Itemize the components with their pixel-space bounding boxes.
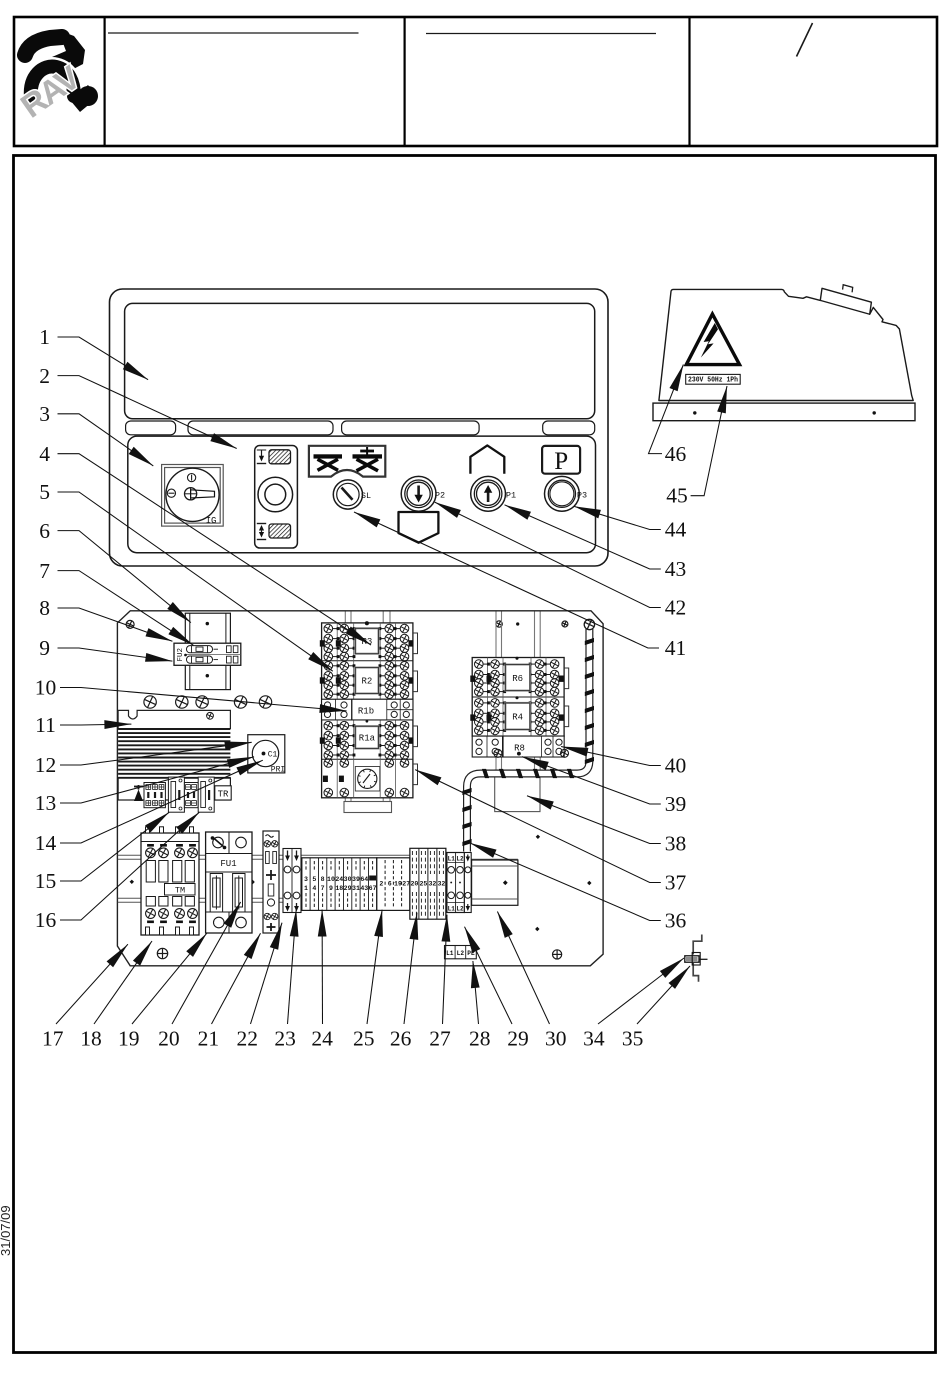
callout 7 [39,559,193,646]
callout 4 [39,442,371,645]
svg-text:3: 3 [39,402,50,426]
callout 35 [622,966,690,1051]
callout 34 [583,958,684,1051]
svg-text:40: 40 [665,754,687,778]
cover base bar [653,403,915,421]
label strip 1 [126,421,176,435]
label plate L1 L2 PE [445,946,477,959]
rail end plate [472,860,518,905]
svg-text:32: 32 [437,881,445,888]
rating plate 230V 50Hz 1Ph [686,374,741,384]
callout 3 [39,402,153,466]
clips right block [564,668,569,727]
callout 43 [505,505,687,581]
striped sheath cable [462,629,594,852]
svg-text:IG: IG [206,516,217,526]
cover body [659,285,913,401]
svg-text:31: 31 [352,885,360,892]
screw cable top [584,619,594,629]
svg-text:4: 4 [39,442,50,466]
title block frame [14,17,937,146]
svg-text:17: 17 [42,1027,64,1051]
svg-text:L1: L1 [448,906,456,913]
svg-text:18: 18 [335,885,343,892]
svg-text:38: 38 [665,832,687,856]
svg-text:L2: L2 [457,950,465,957]
relay block right [472,657,564,736]
relay R1a [320,721,414,759]
terminal strip wide [410,848,450,919]
svg-text:10: 10 [327,876,335,883]
callout 8 [39,596,172,641]
svg-text:SL: SL [361,491,371,501]
svg-text:15: 15 [35,869,57,893]
relay R1b [322,699,413,720]
svg-text:43: 43 [665,557,687,581]
capacitor C1 PRI [248,735,285,775]
title block rule cell 2 [108,32,359,34]
callout 1 [39,325,148,380]
svg-text:FU2: FU2 [177,648,185,662]
control panel enclosure [110,289,609,566]
relay support plate right [495,770,540,812]
svg-text:41: 41 [665,636,687,660]
callout 18 [80,941,152,1051]
callout 38 [527,796,686,856]
relay R3 [320,624,414,661]
relay R8 [472,736,568,757]
svg-text:25: 25 [353,1027,375,1051]
svg-text:6: 6 [388,881,392,888]
callout 25 [353,910,382,1051]
svg-text:R1b: R1b [358,706,374,716]
svg-text:44: 44 [665,518,687,542]
clips center block [413,633,418,785]
label strip 4 [543,421,595,435]
screw bottom-right [553,950,562,959]
callout 14 [35,760,263,855]
svg-text:19: 19 [118,1027,140,1051]
din rail horizontal [118,855,518,902]
fuse holder FU1 [206,832,252,933]
svg-text:8: 8 [39,596,50,620]
svg-text:23: 23 [274,1027,296,1051]
svg-text:5: 5 [39,480,50,504]
svg-text:11: 11 [35,713,56,737]
callout 37 [415,770,686,895]
screw small right-top [496,621,568,627]
svg-text:27: 27 [429,1027,451,1051]
callout 24 [311,910,333,1051]
label strip 2 [188,421,333,435]
din rail vertical right [496,612,540,771]
svg-text:39: 39 [352,876,360,883]
relay R4 [470,699,563,735]
svg-text:24: 24 [311,1027,333,1051]
svg-text:37: 37 [665,871,687,895]
callout 10 [35,676,347,711]
dot right-top [516,622,519,625]
svg-text:29: 29 [507,1027,529,1051]
screw top-left [126,620,134,628]
callout 19 [118,933,207,1050]
fuse block FU2 [174,643,241,665]
svg-text:1: 1 [304,885,308,892]
svg-text:7: 7 [321,885,325,892]
callout 28 [469,961,491,1051]
svg-text:16: 16 [35,908,57,932]
svg-text:R1a: R1a [359,734,376,744]
svg-text:42: 42 [665,596,687,620]
svg-text:8: 8 [321,876,325,883]
svg-text:36: 36 [665,909,687,933]
icon P box [542,446,580,475]
svg-text:13: 13 [35,791,57,815]
svg-text:32: 32 [428,881,436,888]
title block rule cell 3 [426,33,656,35]
terminal strip numbered [302,858,377,911]
svg-text:67: 67 [369,885,377,892]
svg-text:39: 39 [665,792,687,816]
RAV logo [14,30,98,125]
warning triangle label [686,314,739,365]
callout 12 [35,742,252,777]
callout 29 [465,927,529,1051]
svg-text:L1: L1 [448,856,456,863]
earth terminal [134,785,143,801]
svg-text:2: 2 [379,881,383,888]
svg-text:14: 14 [35,831,57,855]
callout 13 [35,757,254,816]
label strip 3 [342,421,480,435]
callout 27 [429,915,451,1051]
din rail vertical middle [344,612,392,813]
rail markers [130,835,592,932]
callout 39 [522,757,686,817]
terminal blocks under TR [144,777,214,812]
svg-text:9: 9 [39,636,50,660]
svg-text:6: 6 [39,519,50,543]
callout 16 [35,812,199,932]
button P3 [545,476,588,511]
svg-text:L2: L2 [456,856,464,863]
callout 9 [39,636,172,661]
svg-text:29: 29 [344,885,352,892]
svg-text:21: 21 [198,1027,220,1051]
icon upper pentagon [470,445,504,473]
knob SL [333,480,371,509]
date 31/07/09 [0,1205,13,1256]
terminal block arrows [283,849,301,913]
svg-text:12: 12 [35,753,57,777]
svg-text:TR: TR [218,790,229,800]
svg-text:10: 10 [35,676,57,700]
screw bottom-left [157,948,167,958]
callout 20 [158,902,240,1051]
relay R2 [320,662,414,699]
svg-text:26: 26 [390,1027,412,1051]
svg-text:P3: P3 [577,490,587,500]
callout 15 [35,812,169,893]
screw row y702 [144,696,272,708]
svg-text:64: 64 [360,876,368,883]
svg-text:5: 5 [312,876,316,883]
button P2 down [401,476,445,511]
din rail clip [685,935,708,982]
callout 2 [39,364,236,449]
callout 36 [470,843,687,933]
svg-text:46: 46 [665,442,687,466]
display window [125,303,595,418]
svg-text:C1: C1 [268,751,278,760]
svg-text:R2: R2 [361,677,372,687]
timer unit [323,759,409,797]
svg-text:19: 19 [394,881,402,888]
svg-text:PE: PE [467,950,475,957]
svg-text:35: 35 [622,1027,644,1051]
terminal strip mid [377,858,410,911]
svg-text:30: 30 [344,876,352,883]
revision slash mark [797,23,813,57]
fuse mount plate FU2 [185,613,230,689]
svg-text:27: 27 [402,881,410,888]
callout 40 [561,747,686,778]
svg-text:4: 4 [312,885,316,892]
svg-text:3: 3 [304,876,308,883]
contactor TM [141,827,199,935]
callout 21 [198,933,261,1050]
lift select control [255,446,298,549]
relay R6 [470,660,563,696]
svg-text:2: 2 [39,364,50,388]
button P1 up [471,476,516,511]
callout 42 [435,502,687,620]
svg-text:18: 18 [80,1027,102,1051]
svg-text:22: 22 [237,1027,259,1051]
svg-text:34: 34 [583,1027,605,1051]
callout 11 [35,713,131,737]
svg-text:PRI: PRI [271,766,285,775]
svg-text:31/07/09: 31/07/09 [0,1205,13,1256]
lift icons label [309,446,385,477]
terminal strip supply [263,831,279,933]
svg-text:20: 20 [410,881,418,888]
svg-text:L2: L2 [456,906,464,913]
callout 22 [237,923,282,1051]
svg-text:45: 45 [666,484,688,508]
svg-text:9: 9 [329,885,333,892]
svg-text:30: 30 [545,1027,567,1051]
callout 46 [649,365,687,466]
svg-text:R6: R6 [512,674,523,684]
callout 23 [274,910,296,1051]
main switch IG [162,465,224,527]
svg-text:P: P [554,448,568,475]
callout 45 [666,386,727,508]
svg-text:P1: P1 [506,490,516,500]
svg-text:L1: L1 [446,950,454,957]
svg-text:28: 28 [469,1027,491,1051]
relay block center [322,621,413,798]
callout 26 [390,913,417,1051]
svg-text:20: 20 [158,1027,180,1051]
svg-text:7: 7 [39,559,50,583]
mounting plate outline [117,611,603,966]
svg-text:1: 1 [39,325,50,349]
callout 5 [39,480,333,671]
svg-text:25: 25 [419,881,427,888]
svg-text:TM: TM [175,885,185,895]
svg-text:24: 24 [335,876,343,883]
svg-text:230V 50Hz 1Ph: 230V 50Hz 1Ph [688,377,738,385]
panel face plate [128,436,596,553]
svg-text:43: 43 [360,885,368,892]
callout 44 [574,506,687,542]
callout 30 [497,912,566,1051]
svg-text:P2: P2 [435,490,445,500]
icon lower pentagon [399,512,439,543]
callout 17 [42,944,128,1050]
svg-text:R4: R4 [512,712,523,722]
svg-text:FU1: FU1 [220,859,236,869]
callout 6 [39,519,191,623]
callout 41 [354,512,686,660]
terminal block L1 L2 [447,853,471,913]
transformer TR [118,710,231,800]
